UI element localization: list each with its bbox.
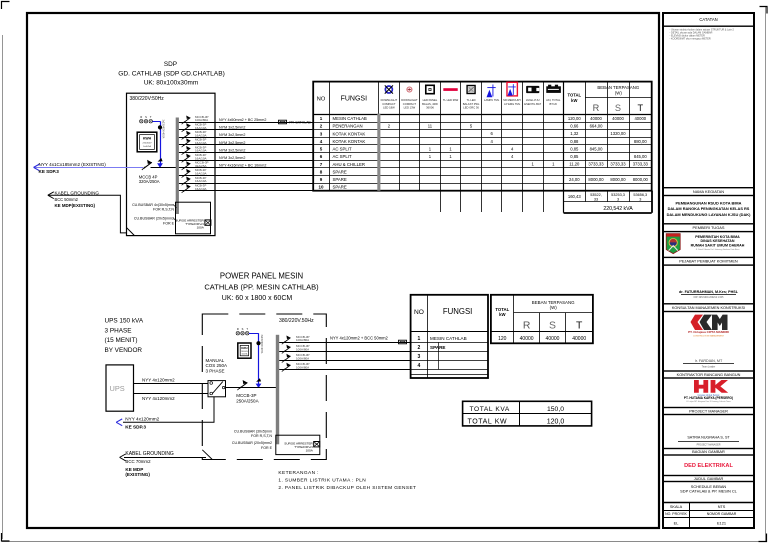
svg-text:R: R (237, 327, 239, 331)
svg-text:PT. Ciriajasa CIPTA MANDIRI: PT. Ciriajasa CIPTA MANDIRI (688, 330, 729, 334)
svg-text:3x230/400V 40/5A: 3x230/400V 40/5A (162, 120, 165, 139)
svg-text:CU.BUSBAR (30x5)mm: CU.BUSBAR (30x5)mm (234, 430, 272, 434)
drawing frame (27, 13, 659, 528)
PP branch breaker 1 MCCB-3P 100A/80A (282, 336, 291, 345)
total kva/kw text (468, 406, 565, 425)
icon lampu emergency in red box (507, 82, 517, 96)
SDP title text (118, 61, 225, 87)
svg-text:230/400V: 230/400V (241, 351, 249, 353)
svg-text:0,85: 0,85 (570, 146, 579, 151)
svg-text:100A: 100A (197, 226, 205, 230)
svg-text:160,43: 160,43 (568, 194, 581, 199)
svg-text:SATRIA NUGRAHA S, ST: SATRIA NUGRAHA S, ST (687, 436, 730, 440)
svg-text:TOTAL KVA: TOTAL KVA (470, 406, 510, 413)
svg-text:KE SDP.3: KE SDP.3 (39, 169, 60, 174)
svg-text:FOR E: FOR E (163, 221, 175, 225)
svg-text:FOR R,S,T,N: FOR R,S,T,N (251, 434, 272, 438)
svg-text:NTS: NTS (718, 505, 726, 509)
svg-text:1,32: 1,32 (570, 131, 579, 136)
svg-text:SPARE: SPARE (333, 177, 347, 182)
svg-text:NO: NO (317, 96, 326, 102)
svg-text:FOR R,S,T,N: FOR R,S,T,N (153, 208, 174, 212)
wire SDP branch 4 (179, 144, 313, 146)
svg-text:CATHLAB (PP. MESIN CATHLAB): CATHLAB (PP. MESIN CATHLAB) (204, 282, 319, 291)
kota bima crest logo (666, 234, 680, 254)
hutama karya text (684, 394, 733, 403)
PP phase indicator lamps R S T (236, 327, 249, 335)
svg-text:SPARE: SPARE (430, 345, 446, 350)
branch breaker 1 MCCB-3P 100A/80A (182, 115, 191, 124)
PP branch breaker 4 MCCB-3P 100A/80A (282, 363, 291, 372)
wire PP branch 3 (279, 360, 410, 362)
svg-text:RUMAH SAKIT UMUM DAERAH: RUMAH SAKIT UMUM DAERAH (691, 243, 745, 247)
PP branch 4 rating label (296, 362, 310, 369)
icon downlight type 2 (407, 87, 412, 92)
SDP metering wire (blue) (152, 121, 160, 164)
svg-text:120,0: 120,0 (547, 419, 565, 426)
catatan notes (670, 28, 735, 40)
svg-text:DOWNLIGHT: DOWNLIGHT (381, 98, 398, 102)
corner mark bottom-right (759, 534, 767, 542)
svg-text:33: 33 (594, 197, 598, 201)
svg-text:CU.BUSBAR (20x5)mm2: CU.BUSBAR (20x5)mm2 (232, 441, 272, 445)
svg-text:LED 18W: LED 18W (383, 105, 395, 109)
svg-text:100A/80A: 100A/80A (296, 357, 309, 361)
table underline stubs (441, 191, 544, 212)
svg-text:SPARE: SPARE (333, 185, 347, 190)
svg-text:3x230/400V 40/5A: 3x230/400V 40/5A (260, 335, 263, 354)
wire SDP branch 1 (179, 122, 313, 124)
svg-text:KETERANGAN :: KETERANGAN : (278, 470, 319, 476)
project manager name (678, 436, 739, 447)
row numbers and functions (318, 116, 366, 190)
PP kWh meter (238, 343, 251, 358)
svg-text:S: S (549, 320, 556, 331)
corner mark bottom-left (2, 533, 10, 541)
svg-text:(EXISTING): (EXISTING) (125, 472, 150, 477)
svg-text:40000: 40000 (572, 336, 586, 342)
svg-text:100A/80A: 100A/80A (296, 366, 309, 370)
svg-text:AHU & CHILLER: AHU & CHILLER (333, 162, 365, 167)
svg-text:0,85: 0,85 (570, 154, 579, 159)
surge arrester box PP (276, 435, 320, 454)
busbar PP (276, 335, 279, 445)
svg-text:880,00: 880,00 (634, 139, 647, 144)
svg-text:KONTRAKTOR RANCANG BANGUN: KONTRAKTOR RANCANG BANGUN (677, 373, 741, 377)
svg-text:PEJABAT PEMBUAT KOMITMEN: PEJABAT PEMBUAT KOMITMEN (679, 259, 738, 264)
svg-text:LED PANEL: LED PANEL (423, 98, 438, 102)
title block bottom grid text (665, 505, 737, 525)
svg-text:11,20: 11,20 (569, 162, 580, 167)
feeder arrow to KE SDP.3 (34, 164, 40, 171)
svg-text:NIP. 19721001 200212 1 005: NIP. 19721001 200212 1 005 (694, 297, 724, 299)
svg-text:LAMPU TML: LAMPU TML (484, 98, 500, 102)
svg-text:2: 2 (418, 345, 421, 351)
svg-text:KE MDP(EXISTING): KE MDP(EXISTING) (55, 203, 96, 208)
main breaker label (139, 174, 160, 184)
svg-text:SDP: SDP (164, 61, 177, 68)
title block bottom grid (663, 503, 754, 529)
svg-text:100A/80A: 100A/80A (296, 347, 309, 351)
svg-text:10: 10 (318, 185, 324, 190)
svg-text:PEMBANGUNAN RSUD KOTA BIMA: PEMBANGUNAN RSUD KOTA BIMA (676, 200, 742, 205)
svg-text:230/400V: 230/400V (143, 143, 153, 145)
svg-text:BAGIAN GAMBAR: BAGIAN GAMBAR (692, 449, 725, 454)
svg-text:AC SPLIT: AC SPLIT (333, 154, 352, 159)
PP schedule table right block (491, 295, 593, 344)
svg-text:NYM 3x2,5mm2: NYM 3x2,5mm2 (219, 126, 245, 130)
svg-text:TL LED: TL LED (467, 98, 476, 102)
svg-text:3: 3 (639, 197, 641, 201)
svg-text:120: 120 (498, 336, 507, 342)
wire SDP branch 2 (179, 129, 313, 131)
svg-text:1320,00: 1320,00 (610, 131, 626, 136)
svg-text:PP. CATHLAB: PP. CATHLAB (289, 120, 311, 124)
svg-text:PROJECT MANAGER: PROJECT MANAGER (689, 408, 728, 413)
svg-text:NYM 3x2,5mm2: NYM 3x2,5mm2 (219, 156, 245, 160)
svg-text:KWH: KWH (143, 137, 152, 141)
svg-text:100A: 100A (306, 449, 314, 453)
SDP phase indicator lamps R S T (140, 115, 153, 123)
svg-text:3733,33: 3733,33 (633, 162, 649, 167)
branch breaker 2 MCB-3P 16A/10A (182, 123, 191, 132)
svg-text:100A/80A: 100A/80A (296, 338, 309, 342)
branch breaker 8 MCB-3P 16A/10A (182, 169, 191, 178)
svg-text:UK: 80x100x30mm: UK: 80x100x30mm (144, 80, 198, 87)
svg-text:NYY 4x120mm2 + BCC 50mm2: NYY 4x120mm2 + BCC 50mm2 (330, 336, 389, 341)
svg-text:NAMA KEGIATAN: NAMA KEGIATAN (693, 189, 724, 194)
node PP junction (blue triangle) (256, 384, 262, 388)
svg-text:FUNGSI: FUNGSI (443, 307, 472, 316)
branch breaker 4 MCB-3P 16A/10A (182, 138, 191, 147)
PP table row labels (418, 336, 467, 369)
svg-text:NYY 4x120mm2: NYY 4x120mm2 (142, 396, 175, 401)
pointer lines to busbar (174, 205, 177, 222)
icon LED panel (426, 85, 434, 93)
svg-text:3x40/5A: 3x40/5A (143, 145, 151, 148)
wire UPS to COS phase 1 (134, 383, 209, 385)
node main junction (blue triangle) (157, 163, 163, 168)
svg-text:S: S (145, 115, 147, 119)
feeder label (39, 162, 107, 174)
svg-text:DALAM RANGKA PENINGKATAN KELAS: DALAM RANGKA PENINGKATAN KELAS RS (668, 206, 750, 211)
svg-text:8000,00: 8000,00 (610, 177, 626, 182)
svg-text:NYM 3x2,5mm2: NYM 3x2,5mm2 (219, 133, 245, 137)
svg-text:NYY 4x1Cx185mm2 (EXISTING): NYY 4x1Cx185mm2 (EXISTING) (39, 162, 107, 167)
ground wire SDP to MDP (48, 195, 127, 233)
PP branch breaker 3 MCCB-3P 100A/80A (282, 354, 291, 363)
svg-text:3733,33: 3733,33 (610, 162, 626, 167)
svg-text:JUDUL GAMBAR: JUDUL GAMBAR (694, 477, 724, 481)
icon downlight type 1 (385, 85, 393, 93)
incoming feeder wire NYY 4x1Cx185mm2 (blue) (34, 167, 143, 169)
corner mark top-right (760, 7, 768, 14)
svg-text:4: 4 (418, 363, 421, 369)
icon lampu tindakan (467, 86, 475, 94)
pejabat name (679, 290, 739, 299)
svg-text:8000,00: 8000,00 (588, 177, 604, 182)
branch breaker 2 rating label (195, 122, 207, 129)
svg-text:R: R (140, 115, 142, 119)
surge arrester PP symbol (314, 442, 320, 447)
svg-text:BEBAN TERPASANG: BEBAN TERPASANG (532, 300, 575, 305)
svg-text:0,88: 0,88 (570, 139, 579, 144)
main breaker MCCB 4P 320A/250A (142, 160, 152, 170)
svg-text:120,00: 120,00 (568, 116, 581, 121)
bypass arrow (116, 419, 122, 426)
table data values (388, 116, 649, 182)
svg-text:LM.EL.PJU: LM.EL.PJU (526, 98, 540, 102)
svg-text:320A/250A: 320A/250A (139, 179, 160, 184)
svg-text:220,542 kVA: 220,542 kVA (603, 206, 633, 212)
svg-text:R: R (523, 320, 531, 331)
PP table values (498, 336, 586, 342)
title block frame (663, 13, 754, 528)
surge arrester box SDP (176, 202, 211, 234)
judul gambar header (663, 476, 754, 482)
svg-text:DOWNLIGHT: DOWNLIGHT (401, 98, 418, 102)
svg-text:BCC 70mm2: BCC 70mm2 (125, 459, 151, 464)
branch breaker 5 rating label (195, 145, 207, 152)
svg-text:BY VENDOR: BY VENDOR (105, 347, 143, 354)
svg-text:2. PANEL LISTRIK DIBACKUP OLEH: 2. PANEL LISTRIK DIBACKUP OLEH SISTEM GE… (278, 485, 416, 491)
SDP junction glyph (158, 158, 163, 162)
svg-text:845,00: 845,00 (634, 154, 647, 159)
svg-text:16A/10A: 16A/10A (195, 187, 207, 191)
svg-text:ESENTIL BAT: ESENTIL BAT (524, 102, 541, 106)
svg-text:3 PHASE: 3 PHASE (105, 327, 132, 334)
svg-text:COS 250A: COS 250A (206, 363, 228, 368)
svg-text:8000,00: 8000,00 (633, 177, 649, 182)
konsultan name (683, 359, 734, 368)
svg-text:KOTAK KONTAK: KOTAK KONTAK (333, 131, 366, 136)
svg-text:EL: EL (674, 520, 680, 525)
PP CU busbar labels (232, 430, 273, 450)
svg-text:DED ELEKTRIKAL: DED ELEKTRIKAL (684, 463, 733, 469)
svg-text:NO: NO (414, 309, 424, 316)
svg-text:R: R (593, 103, 600, 113)
svg-text:Team Leader: Team Leader (702, 365, 716, 368)
UPS vendor label (105, 318, 144, 354)
busbar SDP (CU busbar R,S,T,N) (176, 118, 179, 215)
svg-text:Jl. Datuk Dibanta Kel. Jatiwan: Jl. Datuk Dibanta Kel. Jatiwangi, Asakot… (696, 248, 741, 251)
svg-text:1. SUMBER LISTRIK UTAMA : PLN: 1. SUMBER LISTRIK UTAMA : PLN (278, 478, 366, 484)
svg-text:T: T (637, 103, 643, 113)
PP schedule table left block (411, 295, 488, 378)
PP title text (204, 271, 319, 302)
svg-text:FOR E: FOR E (261, 446, 273, 450)
svg-text:KABEL GROUNDING: KABEL GROUNDING (55, 190, 100, 195)
PP branch 3 rating label (296, 353, 310, 360)
svg-text:1: 1 (418, 336, 421, 342)
svg-text:CATATAN: CATATAN (699, 17, 717, 22)
PP branch 1 rating label (296, 335, 310, 342)
svg-text:SDP CATHLAB & PP. MESIN CL: SDP CATHLAB & PP. MESIN CL (680, 488, 737, 493)
ground label SDP (55, 190, 100, 208)
branch breaker 10 rating label (195, 184, 207, 191)
svg-text:(15 MENIT): (15 MENIT) (105, 337, 138, 344)
branch breaker 5 MCB-3P 16A/10A (182, 146, 191, 155)
svg-text:AKI, TOTAL: AKI, TOTAL (546, 98, 561, 102)
svg-text:TOTAL: TOTAL (495, 307, 509, 312)
header phase R S T (593, 103, 644, 113)
svg-text:E121: E121 (717, 520, 726, 525)
wire SDP branch 3 (179, 137, 313, 139)
nama kegiatan text (667, 200, 751, 217)
manual changeover switch COS box (208, 381, 226, 397)
svg-text:BEBAN TERPASANG: BEBAN TERPASANG (597, 85, 640, 90)
svg-text:Ir. FARDIAN, MT: Ir. FARDIAN, MT (695, 359, 723, 363)
wire SDP branch 5 (179, 152, 313, 154)
icon descriptions (381, 98, 561, 109)
wire SDP branch 6 (179, 160, 313, 162)
svg-text:380/220V.50Hz: 380/220V.50Hz (279, 318, 314, 324)
wire COS to PP busbar (226, 387, 277, 389)
connector on PP branch 1 (399, 340, 407, 344)
ciriajasa text (688, 330, 729, 337)
svg-text:40000: 40000 (612, 116, 624, 121)
svg-text:UK: 60 x 1800 x 60CM: UK: 60 x 1800 x 60CM (222, 295, 293, 302)
svg-text:COMPACT: COMPACT (403, 102, 417, 106)
svg-text:dr. FATURRAHMAN, M.Kes; PHSL: dr. FATURRAHMAN, M.Kes; PHSL (679, 290, 739, 294)
judul gambar text (680, 484, 737, 494)
PP junction glyph (256, 378, 261, 382)
header BEBAN TERPASANG (W) (597, 85, 640, 95)
branch breaker 7 rating label (195, 161, 209, 168)
svg-text:24,00: 24,00 (569, 177, 580, 182)
svg-text:PEMBERI TUGAS: PEMBERI TUGAS (693, 225, 725, 230)
svg-text:40000: 40000 (520, 336, 534, 342)
pemberi tugas header (663, 224, 754, 232)
branch breaker 4 rating label (195, 138, 207, 145)
svg-text:11: 11 (428, 124, 433, 129)
svg-text:POWER PANEL MESIN: POWER PANEL MESIN (220, 271, 303, 280)
branch breaker 9 MCB-3P 16A/10A (182, 176, 191, 185)
svg-text:NOMOR GAMBAR: NOMOR GAMBAR (707, 512, 737, 516)
ground wire PP to MDP (124, 457, 206, 459)
catatan header (663, 13, 754, 26)
svg-text:GD. CATHLAB (SDP GD.CHATLAB): GD. CATHLAB (SDP GD.CHATLAB) (118, 70, 225, 77)
svg-text:NYM 3x2,5mm2: NYM 3x2,5mm2 (219, 141, 245, 145)
pemberi tugas text (691, 235, 745, 251)
PP metering wire (blue) (249, 333, 259, 384)
wire PP branch 1 (279, 342, 410, 344)
wire SDP branch 7 (179, 167, 313, 169)
svg-text:KONSULTAN MANAJEMEN KONSTRUKSI: KONSULTAN MANAJEMEN KONSTRUKSI (672, 306, 745, 310)
svg-text:TL LED 36W: TL LED 36W (443, 98, 459, 102)
keterangan notes (278, 470, 416, 491)
PP main breaker MCCB-3P 250A/250A (237, 380, 247, 390)
PP CT on metering wire (256, 341, 260, 345)
svg-text:BCC 50mm2: BCC 50mm2 (55, 197, 79, 202)
nama kegiatan header (663, 188, 754, 196)
svg-text:MESIN CATHLAB: MESIN CATHLAB (333, 116, 367, 121)
svg-text:NYY 4x16mm2 + BC 10mm2: NYY 4x16mm2 + BC 10mm2 (219, 164, 266, 168)
icon lampu taman (487, 85, 496, 98)
wire PP branch 2 (279, 351, 410, 353)
svg-text:380/220V:50Hz: 380/220V:50Hz (130, 96, 165, 102)
connector to PP. CATHLAB on branch 1 (279, 120, 287, 124)
table header NO FUNGSI (317, 96, 367, 103)
svg-text:NYM 3x2,5mm2: NYM 3x2,5mm2 (219, 148, 245, 152)
ground label PP (125, 451, 174, 477)
hutama karya HK logo (694, 380, 728, 393)
svg-text:CONSTRUCTION MANAGEMENT: CONSTRUCTION MANAGEMENT (693, 334, 725, 337)
svg-text:(W): (W) (615, 90, 622, 95)
svg-text:36X06: 36X06 (426, 105, 434, 109)
surge arrester SDP symbol (205, 220, 211, 225)
PP panel enclosure (dashed) (202, 314, 326, 460)
svg-text:UPS: UPS (110, 384, 125, 393)
svg-text:PENERANGAN: PENERANGAN (333, 124, 363, 129)
svg-text:BALAS, 40W: BALAS, 40W (422, 102, 438, 106)
wire SDP branch 10 (179, 190, 313, 192)
branch breaker 6 MCB-3P 16A/10A (182, 154, 191, 163)
COS switch symbol (210, 382, 225, 395)
branch breaker 9 rating label (195, 176, 207, 183)
branch breaker 10 MCB-3P 16A/10A (182, 184, 191, 193)
svg-text:664,00: 664,00 (590, 124, 603, 129)
svg-text:SD MERCURY: SD MERCURY (503, 98, 521, 102)
SDP CU busbar labels (132, 203, 175, 225)
svg-text:SPARE: SPARE (333, 169, 347, 174)
SDP kWh meter (137, 132, 157, 152)
svg-text:150,0: 150,0 (547, 406, 564, 413)
branch breaker 6 rating label (195, 153, 207, 160)
svg-text:LED 13W: LED 13W (404, 105, 416, 109)
svg-text:LP EMG TML: LP EMG TML (504, 102, 521, 106)
svg-text:- KOORDINAT ukur mengacu METE: - KOORDINAT ukur mengacu METER (670, 38, 711, 41)
PP branch breaker 2 MCCB-3P 100A/80A (282, 345, 291, 354)
totals row (568, 193, 647, 201)
svg-text:(W): (W) (550, 305, 558, 310)
svg-text:KE SDP.3: KE SDP.3 (125, 424, 146, 429)
surge arrester SDP label (175, 219, 204, 230)
svg-text:NYY 4x120mm2: NYY 4x120mm2 (142, 378, 175, 383)
PP main breaker label (236, 393, 258, 403)
branch breaker 3 MCB-3P 16A/10A (182, 131, 191, 140)
branch breaker 1 rating label (195, 115, 209, 122)
bagian gambar header (663, 449, 754, 456)
svg-text:T: T (576, 320, 583, 331)
svg-text:NYY 4x50mm2 + BC 25mm2: NYY 4x50mm2 + BC 25mm2 (219, 118, 266, 122)
svg-text:COMPACT: COMPACT (382, 102, 396, 106)
svg-text:SKALA: SKALA (670, 505, 683, 509)
svg-text:Jl. Letjen MT. Haryono Kav. 8: Jl. Letjen MT. Haryono Kav. 8 Cawang, Ja… (686, 400, 731, 403)
svg-text:kW: kW (499, 312, 506, 317)
wire SDP branch 8 (179, 175, 313, 177)
pejabat pembuat komitmen header (663, 257, 754, 265)
manual COS 250A label (206, 358, 228, 374)
svg-text:KOTAK KONTAK: KOTAK KONTAK (333, 139, 366, 144)
svg-text:KABEL GROUNDING: KABEL GROUNDING (125, 451, 174, 457)
PP table headers (414, 300, 583, 332)
svg-text:S: S (242, 327, 244, 331)
svg-text:CU.BUSBAR (20x5)mm2: CU.BUSBAR (20x5)mm2 (134, 216, 174, 220)
SDP panel enclosure (127, 93, 216, 235)
svg-text:3: 3 (617, 197, 619, 201)
svg-text:0,66: 0,66 (570, 124, 579, 129)
icon TL LED red bar (443, 88, 457, 91)
svg-text:LED GRC 36: LED GRC 36 (463, 105, 479, 109)
bypass wire COS to SDP.3 (123, 397, 214, 423)
UPS unit box (106, 365, 134, 411)
svg-text:40000: 40000 (590, 116, 602, 121)
header TOTAL kW (568, 93, 582, 103)
svg-text:MANUAL: MANUAL (206, 358, 225, 363)
branch breaker 7 MCCB-3P 32A/25A (182, 161, 191, 170)
svg-text:AC SPLIT: AC SPLIT (333, 147, 352, 152)
